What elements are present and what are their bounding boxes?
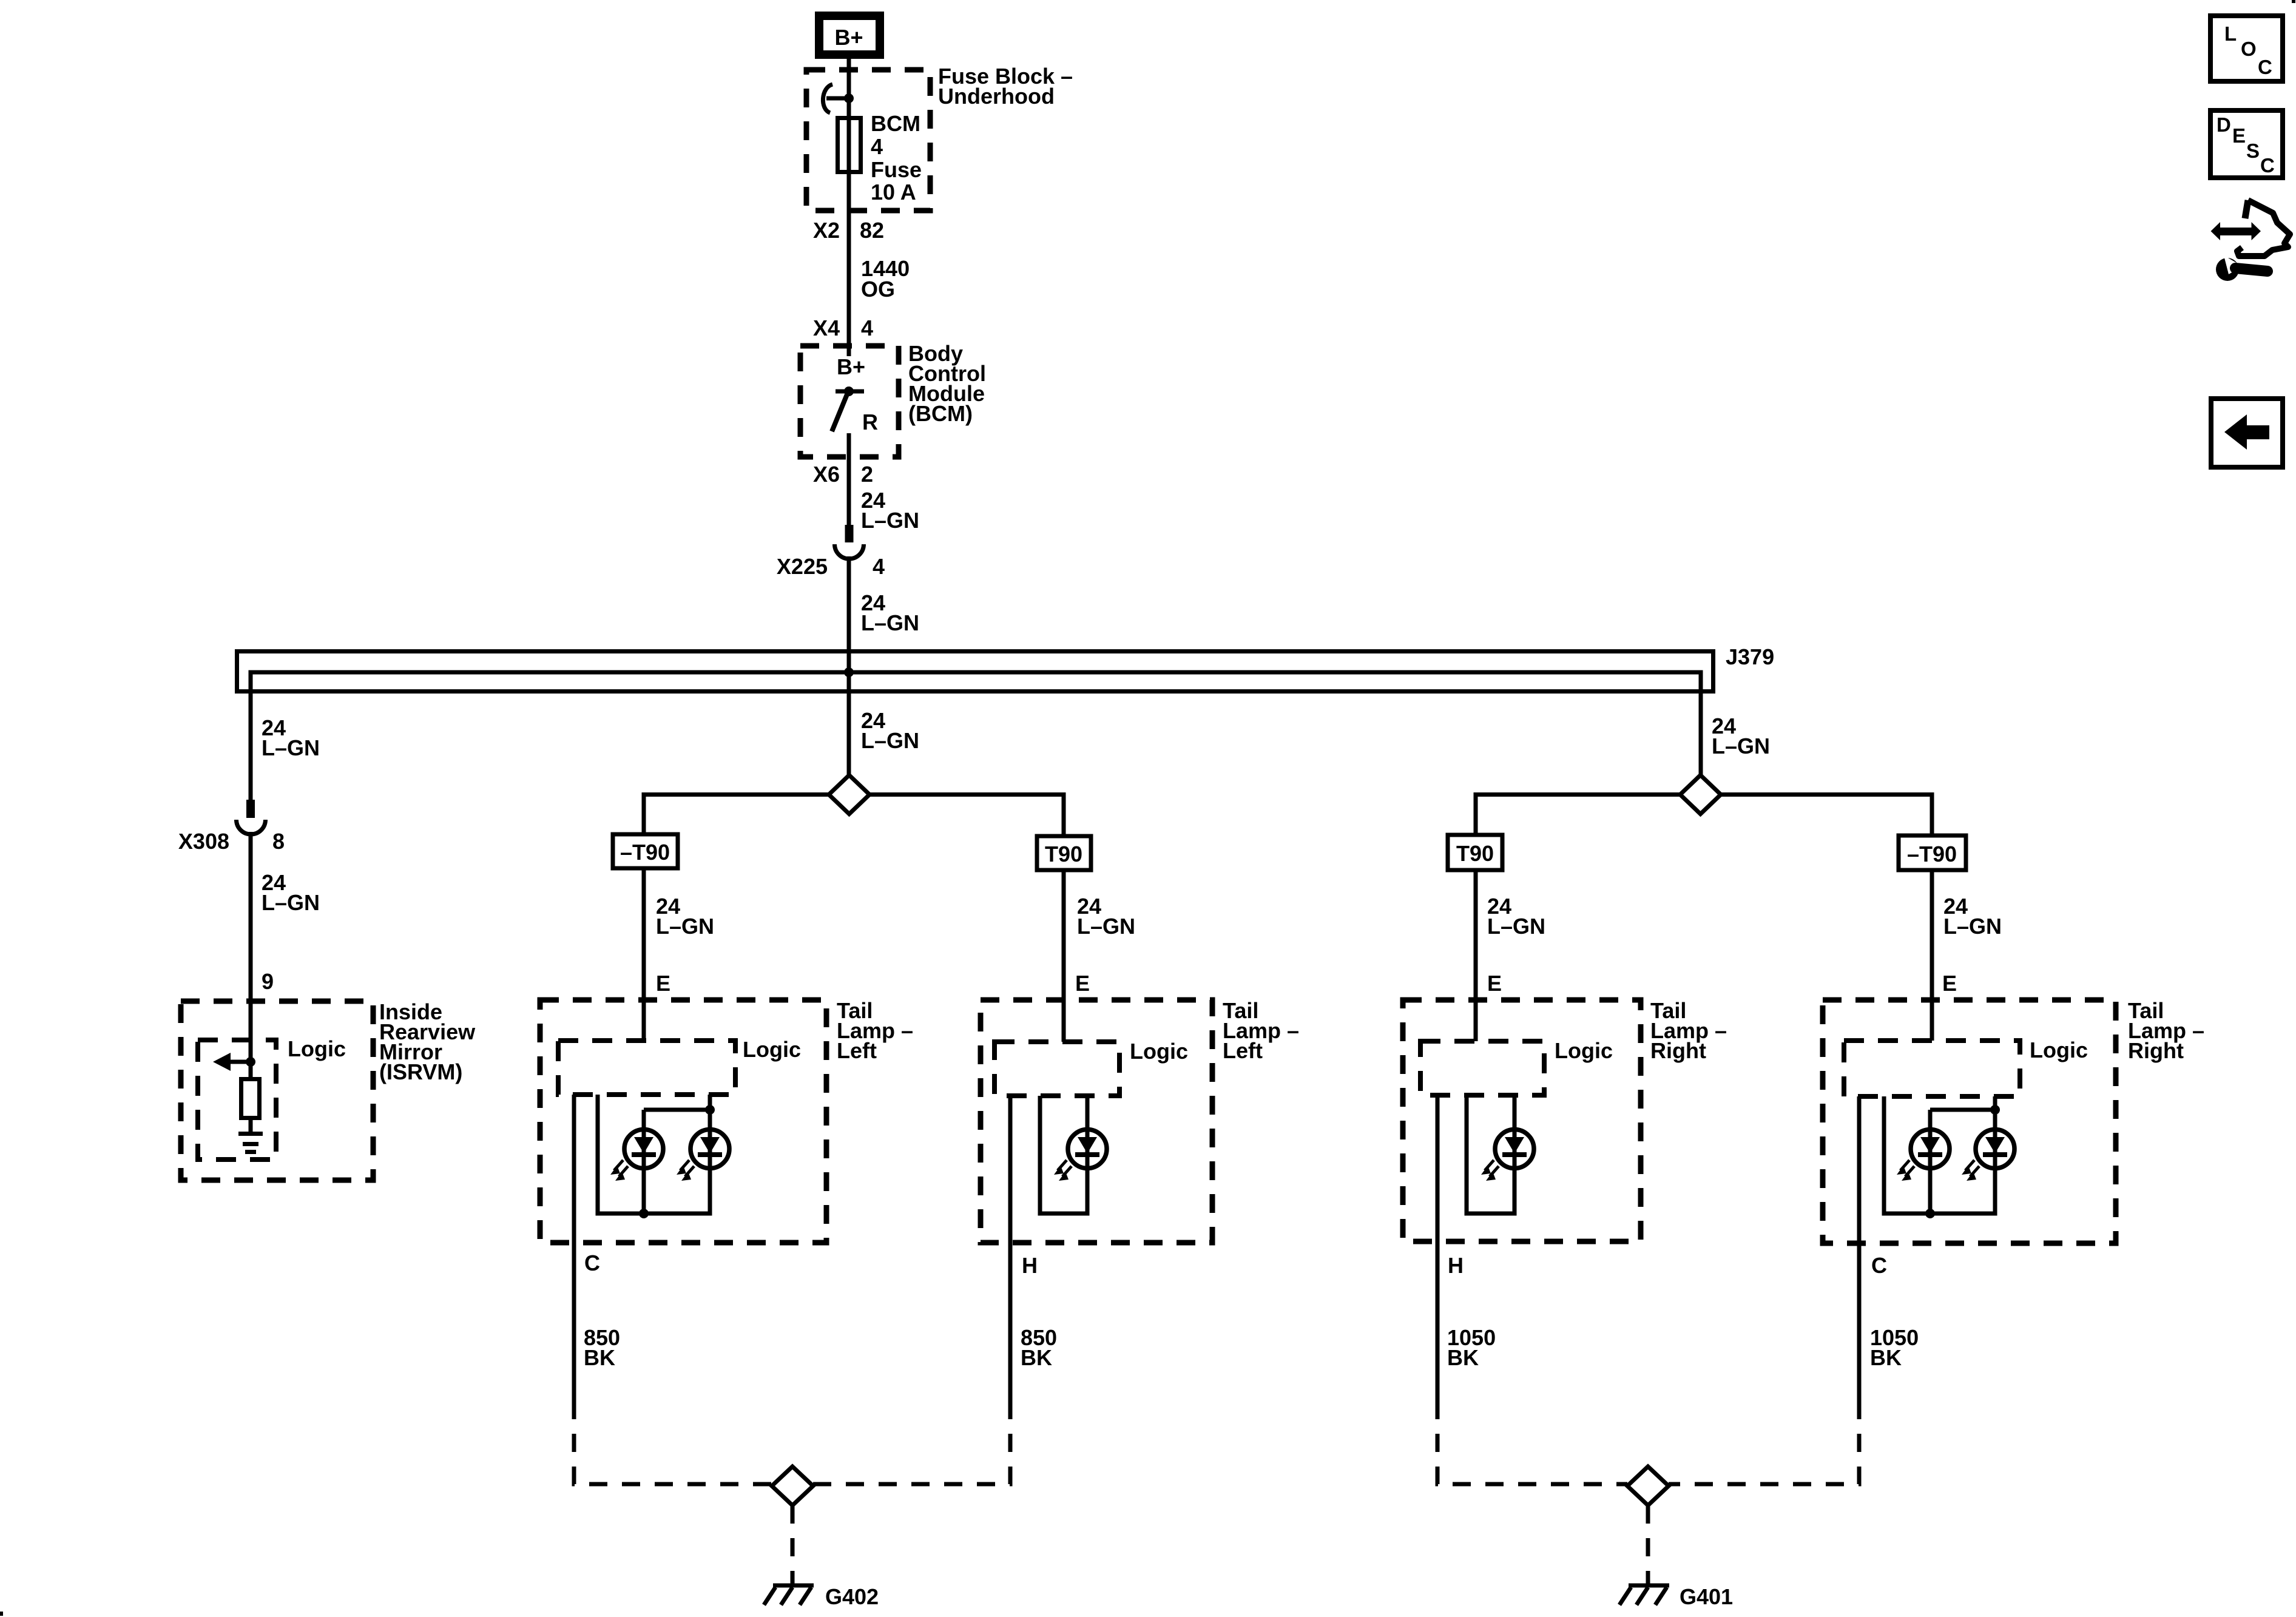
icon: DESC button	[2210, 110, 2283, 178]
svg-text:C: C	[1871, 1253, 1887, 1278]
svg-text:10 A: 10 A	[871, 180, 916, 204]
pin label X6 | 2	[813, 462, 873, 487]
connector label X225 | 4	[777, 554, 885, 579]
label: Inside Rearview Mirror (ISRVM)	[379, 999, 476, 1084]
wire label 850 BK (lamp2)	[1021, 1325, 1057, 1370]
wire label 24 L-GN	[262, 870, 320, 915]
svg-text:82: 82	[860, 218, 884, 243]
wire label 1050 BK (lamp4)	[1870, 1325, 1919, 1370]
svg-text:Right: Right	[1650, 1038, 1706, 1063]
wire: lamp1 anode feed	[644, 1095, 710, 1214]
svg-text:L–GN: L–GN	[1712, 734, 1770, 758]
wire: connector to splice pack J379	[847, 556, 851, 775]
scan speck top-right	[2292, 0, 2295, 3]
BCM dashed box: Body Control Module	[800, 346, 899, 457]
junction at fuse clip	[844, 93, 854, 103]
svg-text:4: 4	[861, 316, 873, 340]
svg-text:Fuse: Fuse	[871, 157, 922, 182]
label: Body Control Module (BCM)	[908, 341, 986, 426]
wire: T90 to lamp3 logic	[1474, 870, 1478, 1041]
svg-text:BK: BK	[1021, 1345, 1052, 1370]
Tail Lamp - Left box 1	[540, 1000, 826, 1243]
svg-text:BCM: BCM	[871, 111, 920, 136]
connector T90 (lamp1, -T90)	[613, 834, 678, 868]
pin label X4 | 4	[813, 316, 873, 340]
svg-text:T90: T90	[1045, 842, 1082, 866]
ISRVM dashed box: Inside Rearview Mirror	[181, 1001, 373, 1180]
resistor (ISRVM pull)	[241, 1062, 260, 1132]
svg-text:X6: X6	[813, 462, 840, 487]
connector T90 (lamp2)	[1037, 836, 1091, 870]
svg-text:Logic: Logic	[288, 1036, 346, 1061]
svg-text:2: 2	[861, 462, 873, 487]
wire label 24 L-GN (lamp4)	[1943, 894, 2002, 939]
ground (earth) in ISRVM	[238, 1134, 263, 1152]
svg-text:4: 4	[873, 554, 885, 579]
wire label 1050 BK (lamp3)	[1447, 1325, 1496, 1370]
svg-text:BK: BK	[584, 1345, 615, 1370]
wire: lamp4 anode feed	[1930, 1096, 1995, 1214]
wire label 24 L-GN (lamp1)	[656, 894, 714, 939]
svg-text:BK: BK	[1870, 1345, 1902, 1370]
svg-text:X4: X4	[813, 316, 840, 340]
wire: -T90 to lamp1 logic	[642, 868, 646, 1041]
svg-text:J379: J379	[1726, 644, 1774, 669]
svg-text:Right: Right	[2128, 1038, 2184, 1063]
svg-text:D: D	[2217, 113, 2231, 136]
svg-text:H: H	[1448, 1253, 1464, 1278]
svg-text:S: S	[2246, 140, 2260, 162]
splice (right ground)	[1627, 1467, 1669, 1505]
wire: lamp3 cathode return	[1465, 1095, 1517, 1214]
wire: lamp1 cathode return	[596, 1095, 712, 1214]
LED (lamp2)	[1054, 1127, 1107, 1214]
Tail Lamp - Right box 1	[1403, 1000, 1641, 1241]
label: fuse value BCM 4 Fuse 10 A	[871, 111, 922, 204]
icon: LOC button	[2210, 16, 2283, 81]
wire: lamp3 logic to pin H	[1436, 1095, 1440, 1401]
label: Tail Lamp - Left (2)	[1223, 998, 1299, 1063]
wire: BCM switch output down	[847, 433, 851, 525]
svg-text:L–GN: L–GN	[1487, 914, 1545, 939]
icon: back arrow button	[2211, 399, 2283, 467]
svg-text:–T90: –T90	[620, 840, 670, 865]
svg-text:E: E	[1487, 971, 1502, 996]
LED 2 (lamp1)	[677, 1127, 729, 1214]
svg-text:B+: B+	[834, 25, 863, 50]
LED 1 (lamp4)	[1928, 1110, 1933, 1129]
svg-text:(BCM): (BCM)	[908, 401, 973, 426]
svg-text:L–GN: L–GN	[656, 914, 714, 939]
svg-text:Left: Left	[837, 1038, 877, 1063]
logic box (lamp4)	[1844, 1041, 2020, 1096]
connector X308 pin 8	[237, 800, 266, 834]
signal arrow (to logic)	[213, 1053, 251, 1071]
svg-text:C: C	[2258, 56, 2272, 78]
svg-text:H: H	[1022, 1253, 1038, 1278]
label: Tail Lamp - Right (2)	[2128, 998, 2204, 1063]
svg-text:E: E	[656, 971, 670, 996]
LED (lamp3)	[1481, 1127, 1534, 1214]
wire: splice to right T90 branch	[869, 795, 1064, 837]
svg-text:L: L	[2224, 22, 2237, 45]
wire: lamp1 logic to pin C	[572, 1095, 576, 1401]
svg-text:X225: X225	[777, 554, 828, 579]
fuse clip symbol	[823, 84, 849, 113]
junction in ISRVM	[246, 1057, 255, 1067]
wire: lamp3 anode feed	[1513, 1095, 1517, 1129]
svg-text:Logic: Logic	[2030, 1038, 2088, 1062]
wire: splice to lamp4 branch	[1721, 795, 1932, 836]
splice (right, tail lamps right)	[1680, 775, 1721, 814]
fuse block dashed box: Fuse Block - Underhood	[806, 70, 930, 211]
svg-text:G402: G402	[825, 1584, 879, 1609]
svg-text:9: 9	[262, 969, 274, 994]
wire label 1440 OG	[861, 256, 910, 302]
wire: -T90 to lamp4 logic	[1930, 870, 1934, 1041]
connector X225 pin 4 (in-line)	[835, 525, 864, 559]
LED 1 (lamp1)	[642, 1110, 646, 1129]
icon: connector service (arrow + wrench)	[2211, 200, 2291, 281]
Tail Lamp - Right box 2	[1823, 1000, 2116, 1243]
dashed wire: splice to G401	[1646, 1505, 1650, 1584]
junction (lamp1 anode)	[705, 1105, 715, 1115]
wire label 24 L-GN	[861, 488, 919, 533]
fuse BCM 4 Fuse 10 A	[838, 118, 861, 172]
logic box (lamp3)	[1420, 1041, 1544, 1095]
connector T90 (lamp4, -T90)	[1899, 836, 1966, 870]
dashed wire: splice to G402	[791, 1505, 795, 1584]
dashed wire: lamp4 C to splice	[1669, 1401, 1859, 1484]
junction (lamp4 cathode)	[1925, 1209, 1935, 1218]
junction (lamp1 cathode)	[639, 1209, 649, 1218]
wire: lamp2 logic to pin H	[1008, 1096, 1013, 1401]
svg-text:E: E	[1942, 971, 1957, 996]
svg-text:C: C	[2260, 154, 2275, 177]
svg-text:E: E	[1075, 971, 1090, 996]
ground G402 (chassis)	[764, 1585, 814, 1605]
wire: lamp2 anode feed	[1086, 1096, 1090, 1129]
svg-text:Left: Left	[1223, 1038, 1263, 1063]
svg-text:O: O	[2241, 38, 2257, 60]
label: Fuse Block - Underhood	[938, 64, 1073, 109]
svg-text:T90: T90	[1456, 841, 1494, 866]
svg-text:X308: X308	[178, 829, 229, 854]
splice (left ground)	[772, 1467, 813, 1505]
wire label 24 L-GN (right drop)	[1712, 714, 1770, 758]
logic box (lamp1)	[558, 1041, 735, 1095]
svg-text:OG: OG	[861, 277, 895, 302]
label: Tail Lamp - Right (1)	[1650, 998, 1727, 1063]
svg-text:L–GN: L–GN	[262, 735, 320, 760]
connector T90 (lamp3)	[1448, 835, 1502, 870]
svg-text:8: 8	[272, 829, 285, 854]
wire: X308 to ISRVM	[249, 832, 253, 1062]
ground G401 (chassis)	[1619, 1585, 1669, 1605]
wire label 24 L-GN (lamp3)	[1487, 894, 1545, 939]
svg-text:L–GN: L–GN	[861, 728, 919, 753]
svg-text:(ISRVM): (ISRVM)	[379, 1059, 462, 1084]
wire label 24 L-GN (center below bus)	[861, 708, 919, 753]
wire label 850 BK (lamp1)	[584, 1325, 620, 1370]
wire label 24 L-GN	[861, 590, 919, 635]
svg-text:Logic: Logic	[743, 1037, 801, 1062]
pin label X2 | 82	[813, 218, 884, 243]
wire: splice to left T90 branch	[644, 795, 829, 835]
svg-text:L–GN: L–GN	[861, 508, 919, 533]
power symbol B+ (battery positive box)	[819, 16, 880, 55]
svg-text:E: E	[2232, 124, 2246, 147]
logic box (lamp2)	[994, 1042, 1119, 1096]
splice pack J379 outline	[237, 652, 1714, 692]
dashed wire: lamp2 H to splice	[813, 1401, 1010, 1484]
junction (lamp4 anode)	[1990, 1105, 2000, 1115]
connector label X308 | 8	[178, 829, 285, 854]
wire: splice to lamp3 branch	[1476, 795, 1680, 836]
wire: T90 to lamp2 logic	[1062, 870, 1066, 1042]
wire: lamp4 logic to pin C	[1857, 1096, 1862, 1401]
svg-text:G401: G401	[1680, 1584, 1733, 1609]
logic box (ISRVM)	[198, 1040, 276, 1160]
svg-text:Underhood: Underhood	[938, 84, 1055, 109]
wire: B+ to BCM switch	[847, 59, 851, 356]
wire: lamp4 cathode return	[1882, 1096, 1997, 1214]
scan speck bottom-left	[0, 1612, 3, 1616]
svg-text:–T90: –T90	[1907, 842, 1957, 866]
splice (center, tail lamps left)	[829, 775, 869, 814]
svg-text:C: C	[584, 1251, 600, 1275]
junction on bus (center drop)	[844, 667, 854, 677]
svg-text:L–GN: L–GN	[861, 610, 919, 635]
dashed wire: lamp3 H to splice	[1437, 1401, 1627, 1484]
svg-text:L–GN: L–GN	[1077, 914, 1135, 939]
switch (BCM internal relay contact)	[832, 387, 864, 431]
Tail Lamp - Left box 2	[981, 1000, 1212, 1243]
wire label 24 L-GN (lamp2)	[1077, 894, 1135, 939]
label: Tail Lamp - Left (1)	[837, 998, 913, 1063]
svg-text:B+: B+	[837, 354, 865, 379]
svg-text:BK: BK	[1447, 1345, 1479, 1370]
svg-text:Logic: Logic	[1555, 1038, 1613, 1063]
svg-text:L–GN: L–GN	[262, 890, 320, 915]
svg-text:R: R	[862, 410, 878, 434]
svg-text:X2: X2	[813, 218, 840, 243]
wire: lamp2 cathode return	[1038, 1096, 1090, 1214]
LED 2 (lamp4)	[1962, 1127, 2014, 1214]
bus wire inside J379 with end drops	[251, 672, 1701, 800]
dashed wire: lamp1 C to splice (off-diagram)	[574, 1401, 772, 1484]
svg-text:Logic: Logic	[1130, 1039, 1188, 1064]
svg-text:L–GN: L–GN	[1943, 914, 2002, 939]
svg-text:4: 4	[871, 134, 883, 159]
wire label 24 L-GN (left drop)	[262, 715, 320, 760]
